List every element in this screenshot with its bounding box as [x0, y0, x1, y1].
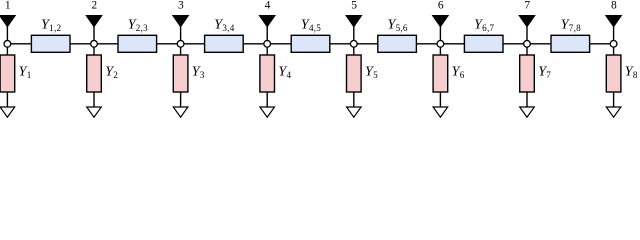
svg-text:Y5,6: Y5,6	[387, 18, 407, 34]
wire shunt box 5 to ground	[353, 92, 355, 107]
ground 5 (open triangle)	[347, 107, 362, 117]
ground 1 (open triangle)	[0, 107, 15, 117]
ground 3 (open triangle)	[173, 107, 188, 117]
svg-text:Y4,5: Y4,5	[301, 18, 321, 34]
wire antenna 8 to node circle	[613, 27, 615, 41]
svg-text:1: 1	[5, 0, 11, 11]
wire node 1 to shunt box	[6, 47, 8, 55]
antenna port 3 (filled triangle)	[172, 15, 190, 28]
antenna port 5 (filled triangle)	[345, 15, 363, 28]
wire node 2 to shunt box	[93, 47, 95, 55]
svg-text:7: 7	[524, 0, 530, 11]
wire node 5 to shunt box	[353, 47, 355, 55]
series admittance Y2,3 box	[118, 35, 157, 52]
svg-text:4: 4	[265, 0, 271, 11]
wire series box Y2,3 to node 3	[157, 43, 178, 45]
wire antenna 4 to node circle	[266, 27, 268, 41]
ground 2 (open triangle)	[87, 107, 102, 117]
wire node 1 to series box Y1,2	[11, 43, 32, 45]
antenna port 4 (filled triangle)	[258, 15, 276, 28]
wire antenna 1 to node circle	[6, 27, 8, 41]
series admittance Y7,8 box	[551, 35, 590, 52]
svg-text:Y3: Y3	[192, 65, 205, 81]
svg-text:Y1: Y1	[19, 65, 32, 81]
shunt admittance Y2 box	[87, 55, 102, 92]
shunt admittance Y7 box	[520, 55, 535, 92]
ground 7 (open triangle)	[520, 107, 535, 117]
wire node 3 to shunt box	[180, 47, 182, 55]
shunt admittance Y3 box	[173, 55, 188, 92]
shunt admittance Y1 box	[0, 55, 15, 92]
node circle 3	[177, 40, 184, 47]
antenna port 7 (filled triangle)	[518, 15, 536, 28]
svg-text:Y7: Y7	[538, 65, 551, 81]
svg-text:8: 8	[611, 0, 617, 11]
svg-text:Y2: Y2	[105, 65, 118, 81]
antenna port 2 (filled triangle)	[85, 15, 103, 28]
svg-text:Y7,8: Y7,8	[561, 18, 581, 34]
wire node 4 to shunt box	[266, 47, 268, 55]
wire shunt box 7 to ground	[526, 92, 528, 107]
series admittance Y6,7 box	[464, 35, 503, 52]
wire node 4 to series box Y4,5	[271, 43, 292, 45]
svg-text:Y2,3: Y2,3	[128, 18, 148, 34]
wire node 2 to series box Y2,3	[97, 43, 118, 45]
wire shunt box 3 to ground	[180, 92, 182, 107]
wire node 6 to shunt box	[439, 47, 441, 55]
wire antenna 5 to node circle	[353, 27, 355, 41]
ground 4 (open triangle)	[260, 107, 275, 117]
series admittance Y3,4 box	[205, 35, 244, 52]
wire series box Y1,2 to node 2	[70, 43, 91, 45]
wire antenna 3 to node circle	[180, 27, 182, 41]
wire shunt box 8 to ground	[613, 92, 615, 107]
wire node 8 to shunt box	[613, 47, 615, 55]
shunt admittance Y8 box	[606, 55, 621, 92]
svg-text:6: 6	[438, 0, 444, 11]
antenna port 8 (filled triangle)	[605, 15, 623, 28]
antenna port 1 (filled triangle)	[0, 15, 16, 28]
svg-text:Y3,4: Y3,4	[214, 18, 234, 34]
shunt admittance Y6 box	[433, 55, 448, 92]
wire antenna 6 to node circle	[439, 27, 441, 41]
node circle 7	[524, 40, 531, 47]
node circle 1	[4, 40, 11, 47]
node circle 6	[437, 40, 444, 47]
node circle 5	[350, 40, 357, 47]
wire shunt box 2 to ground	[93, 92, 95, 107]
svg-text:Y8: Y8	[625, 65, 638, 81]
series admittance Y1,2 box	[31, 35, 70, 52]
wire antenna 2 to node circle	[93, 27, 95, 41]
ground 6 (open triangle)	[433, 107, 448, 117]
shunt admittance Y5 box	[347, 55, 362, 92]
wire series box Y3,4 to node 4	[243, 43, 264, 45]
svg-text:3: 3	[178, 0, 184, 11]
wire shunt box 1 to ground	[6, 92, 8, 107]
wire series box Y4,5 to node 5	[330, 43, 351, 45]
ground 8 (open triangle)	[606, 107, 621, 117]
svg-text:Y6,7: Y6,7	[474, 18, 494, 34]
node circle 8	[610, 40, 617, 47]
svg-text:Y4: Y4	[278, 65, 291, 81]
shunt admittance Y4 box	[260, 55, 275, 92]
wire series box Y6,7 to node 7	[503, 43, 524, 45]
svg-text:Y5: Y5	[365, 65, 378, 81]
wire series box Y7,8 to node 8	[590, 43, 611, 45]
svg-text:Y6: Y6	[452, 65, 465, 81]
wire node 7 to series box Y7,8	[530, 43, 551, 45]
svg-text:5: 5	[351, 0, 357, 11]
series admittance Y5,6 box	[378, 35, 417, 52]
svg-text:2: 2	[91, 0, 97, 11]
wire node 3 to series box Y3,4	[184, 43, 205, 45]
wire node 6 to series box Y6,7	[444, 43, 465, 45]
wire node 7 to shunt box	[526, 47, 528, 55]
series admittance Y4,5 box	[291, 35, 330, 52]
node circle 2	[91, 40, 98, 47]
wire shunt box 6 to ground	[439, 92, 441, 107]
node circle 4	[264, 40, 271, 47]
wire node 5 to series box Y5,6	[357, 43, 378, 45]
antenna port 6 (filled triangle)	[432, 15, 450, 28]
wire shunt box 4 to ground	[266, 92, 268, 107]
svg-text:Y1,2: Y1,2	[41, 18, 61, 34]
wire antenna 7 to node circle	[526, 27, 528, 41]
wire series box Y5,6 to node 6	[416, 43, 437, 45]
